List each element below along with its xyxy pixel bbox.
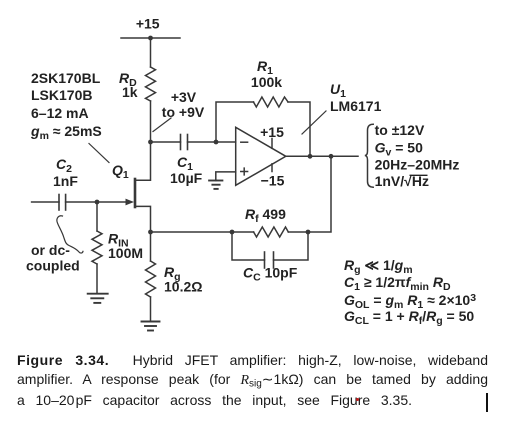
svg-text:+15: +15	[136, 15, 160, 31]
svg-text:LSK170B: LSK170B	[31, 87, 92, 103]
svg-text:or dc-: or dc-	[31, 242, 70, 258]
svg-text:20Hz–20MHz: 20Hz–20MHz	[375, 157, 460, 173]
svg-text:LM6171: LM6171	[330, 98, 382, 114]
svg-text:−15: −15	[261, 173, 285, 189]
svg-text:+15: +15	[260, 124, 284, 140]
svg-text:10.2Ω: 10.2Ω	[164, 279, 202, 295]
svg-text:Rf 499: Rf 499	[245, 206, 286, 225]
svg-text:10µF: 10µF	[170, 170, 203, 186]
svg-text:+3V: +3V	[171, 89, 197, 105]
svg-text:1nF: 1nF	[53, 173, 78, 189]
svg-text:1k: 1k	[122, 84, 138, 100]
svg-text:CC 10pF: CC 10pF	[243, 265, 298, 284]
svg-text:2SK170BL: 2SK170BL	[31, 70, 101, 86]
svg-text:C1 ≥ 1/2πfmin RD: C1 ≥ 1/2πfmin RD	[344, 274, 451, 293]
svg-text:6–12 mA: 6–12 mA	[31, 105, 89, 121]
svg-text:Q1: Q1	[112, 162, 129, 181]
svg-text:coupled: coupled	[26, 258, 80, 274]
svg-text:100M: 100M	[108, 245, 143, 261]
svg-text:to +9V: to +9V	[162, 104, 205, 120]
svg-text:to ±12V: to ±12V	[375, 122, 425, 138]
svg-text:Gv = 50: Gv = 50	[375, 139, 423, 158]
svg-text:gm ≈ 25mS: gm ≈ 25mS	[30, 123, 102, 142]
svg-text:100k: 100k	[251, 74, 282, 90]
